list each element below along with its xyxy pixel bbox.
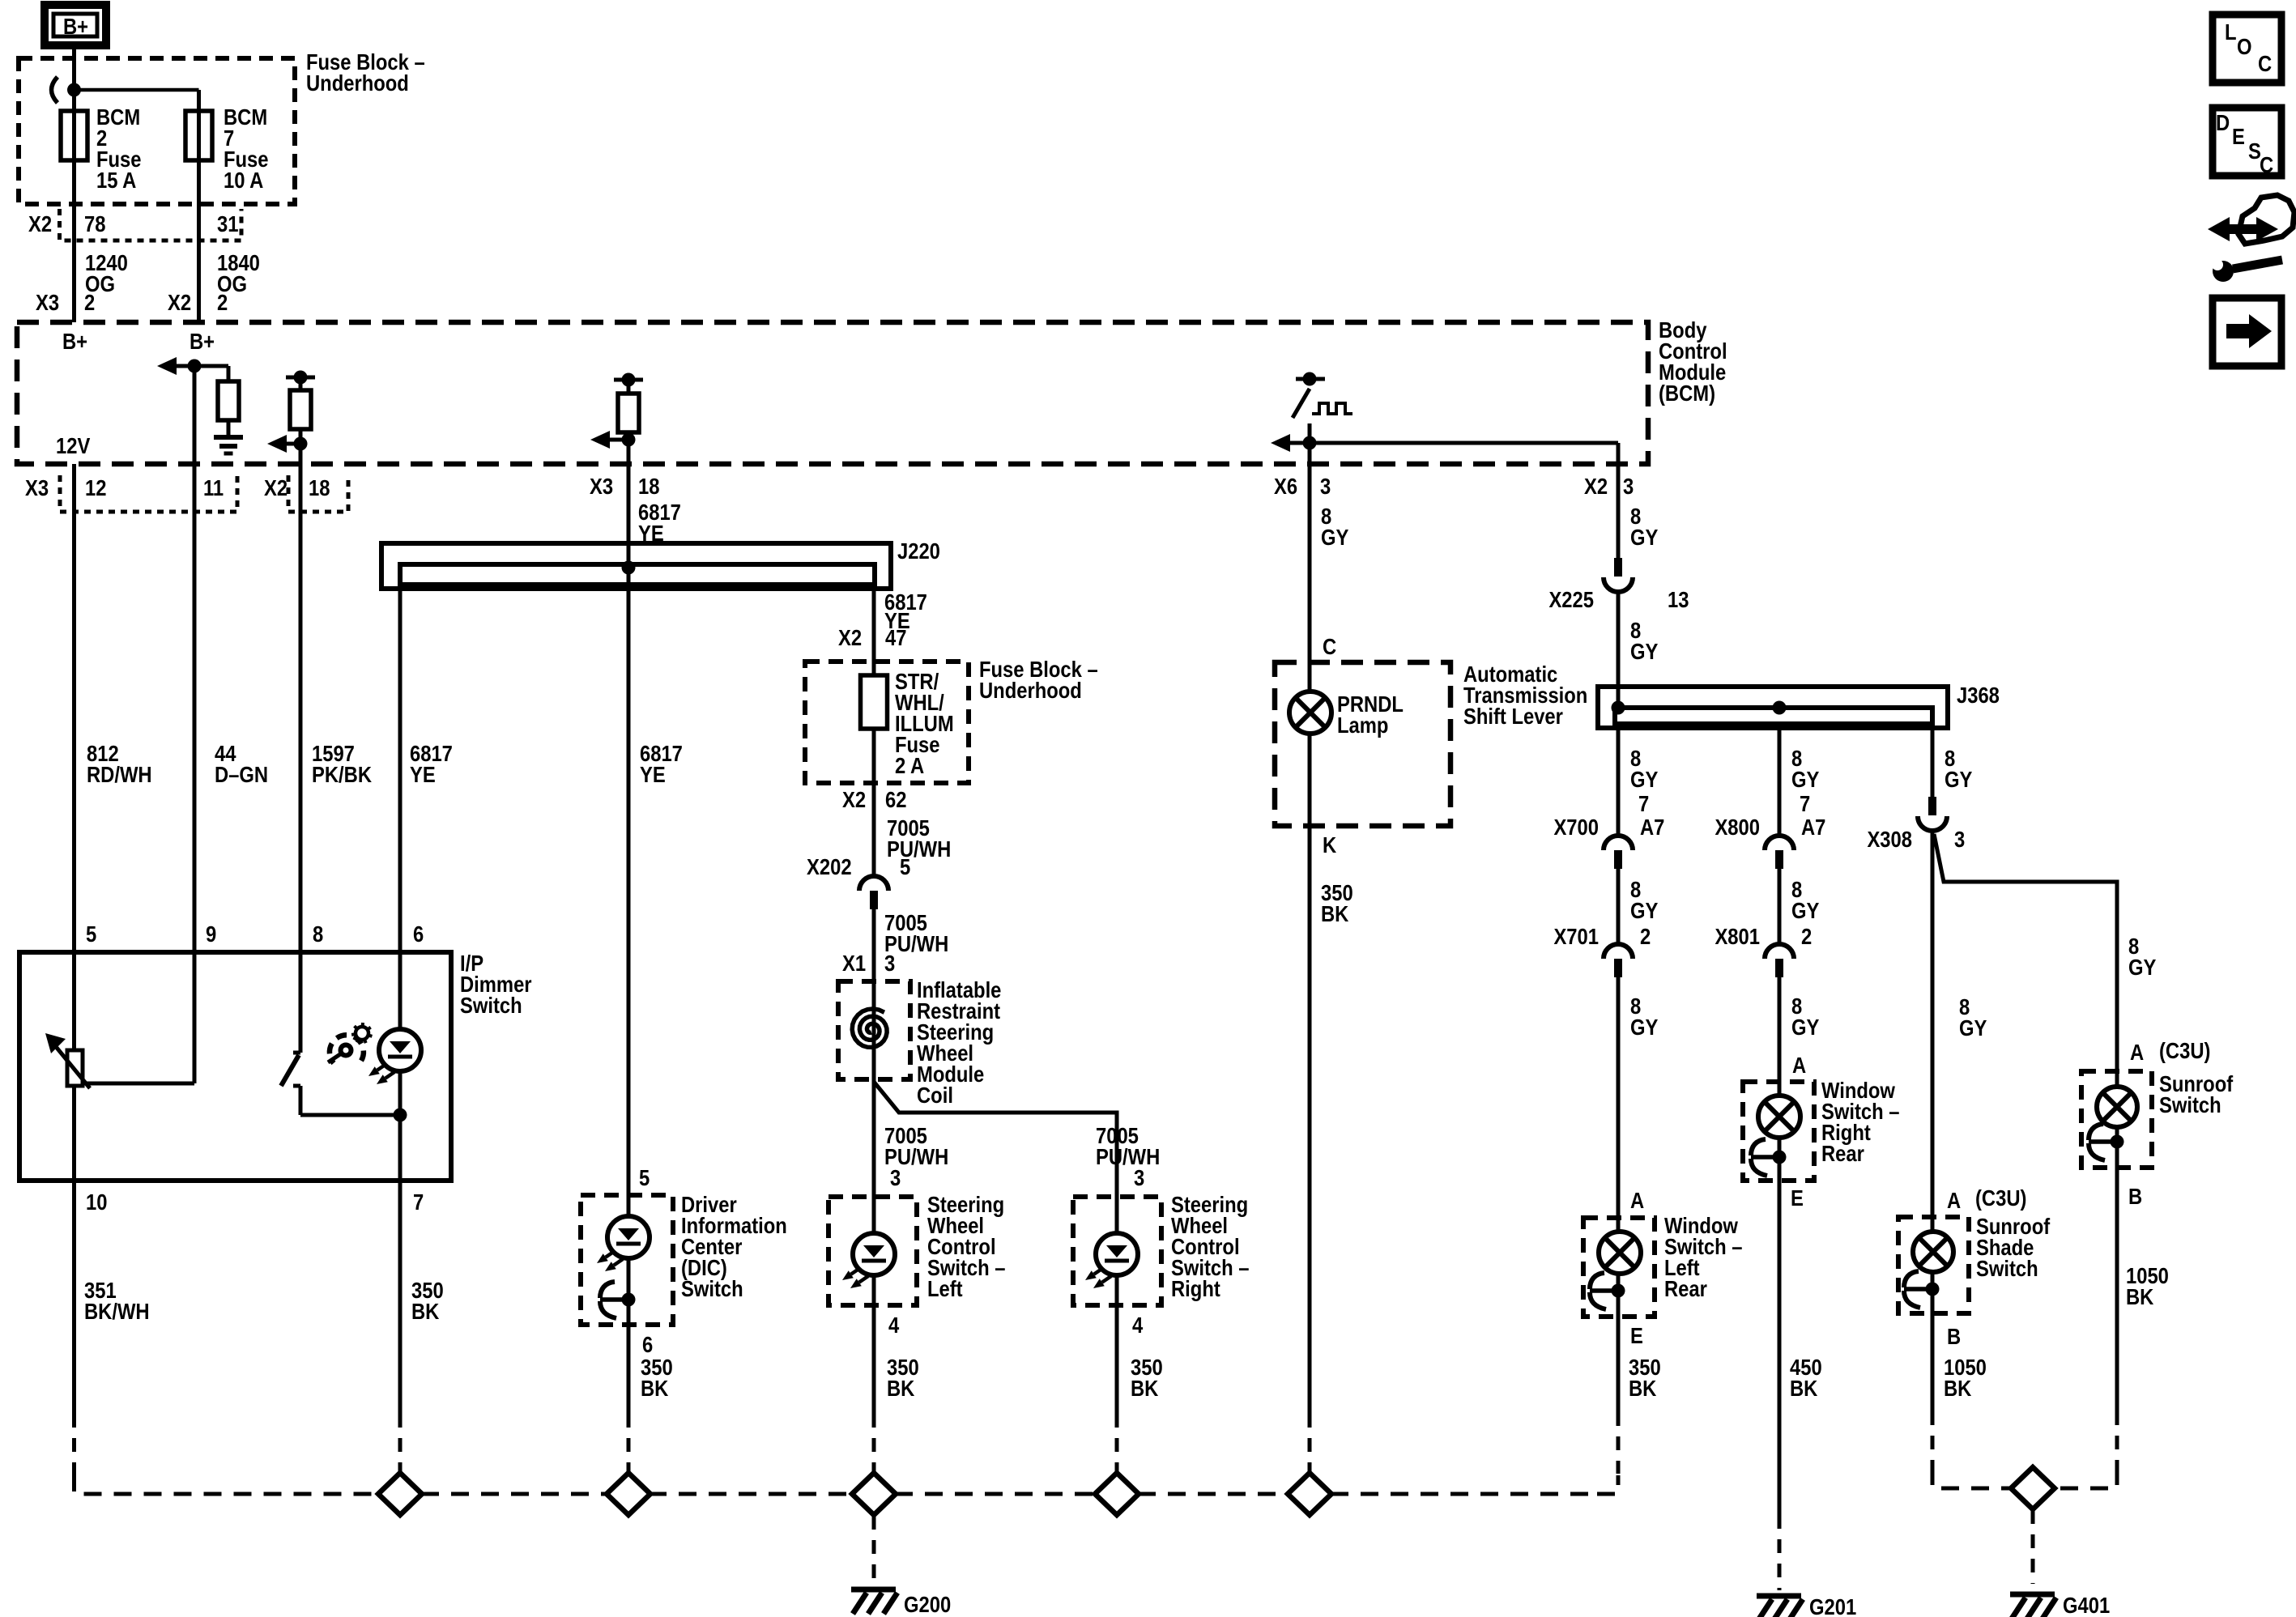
Automatic Transmission Shift Lever PRNDL lamp dashed box [1275,662,1450,826]
icon GO (arrow) box [2213,298,2281,366]
svg-text:BCM2Fuse15 A: BCM2Fuse15 A [96,104,142,193]
svg-text:2: 2 [84,289,95,315]
switch blade [281,1055,299,1086]
svg-text:BCM7Fuse10 A: BCM7Fuse10 A [224,104,269,193]
svg-text:4: 4 [888,1312,900,1338]
wire internal to pin X2-3 [1310,441,1618,445]
internal rail bar [614,378,643,382]
svg-text:B: B [2128,1183,2142,1209]
ground BCM internal [214,435,243,440]
lamp sunroof shade switch illumination [1913,1232,1953,1272]
wire 44 D-GN BCM X3-11 to dimmer pin 9 [193,512,197,1083]
wire 8 GY J368 to X700 [1617,728,1621,836]
junction BCM internal [188,360,202,373]
wire through DIC switch [627,1195,631,1325]
svg-text:X6: X6 [1274,473,1297,499]
svg-text:350BK: 350BK [887,1354,919,1401]
svg-text:62: 62 [885,786,906,812]
wire 350 BK PRNDL to ground bus [1308,826,1312,1414]
wire LED to pin 7 [398,1070,403,1181]
dimmer on/off switch blade [299,1040,303,1053]
svg-text:X2: X2 [842,786,866,812]
wire B+ feed down through BCM 2 fuse to BCM X3-2 [72,45,76,322]
svg-text:X202: X202 [807,853,852,879]
splice pack J220 [381,543,891,589]
junction feed split [67,83,81,97]
svg-text:X3: X3 [590,473,613,499]
svg-text:X308: X308 [1867,826,1912,852]
Window Switch - Left Rear dashed box [1583,1218,1655,1317]
switch blade [1293,389,1310,418]
svg-text:X800: X800 [1715,814,1760,840]
svg-text:78: 78 [84,211,105,236]
svg-text:9: 9 [206,921,216,947]
ground hook window switch right rear [1773,1151,1787,1164]
PWM square wave symbol [1312,403,1352,414]
junction [294,437,308,451]
svg-text:5: 5 [900,853,910,879]
ground hook sunroof switch [2111,1135,2124,1149]
Window Switch - Right Rear dashed box [1743,1082,1814,1181]
splice ground bus sunroof [2011,1467,2055,1509]
wire dashed 351 BK/WH to bus [72,1414,76,1474]
lamp window switch right rear illumination [1758,1096,1800,1138]
svg-text:2: 2 [1640,923,1651,949]
resistor BCM internal pull-down [218,381,239,420]
icon DESC box [2213,108,2281,176]
svg-text:18: 18 [638,473,659,499]
svg-text:G200: G200 [904,1591,951,1617]
svg-text:2: 2 [217,289,228,315]
svg-text:3: 3 [890,1164,901,1190]
ground hook sunroof shade switch [1926,1283,1940,1296]
connector pin box X3 12/11 [60,475,237,512]
wire branch 7005 PU/WH to SWC-right [874,1082,1117,1197]
resistor BCM internal (X2-18) [290,390,311,429]
svg-text:31: 31 [217,211,238,236]
splice ground bus [607,1473,650,1515]
splice ground bus [378,1473,422,1515]
wire dashed 1050 BK to bus [1931,1411,1935,1467]
svg-text:J368: J368 [1957,682,2000,708]
svg-text:A: A [1792,1052,1806,1078]
junction [1303,436,1317,450]
svg-text:350BK: 350BK [411,1277,444,1324]
wire 351 BK/WH dimmer pin 10 down [72,1181,76,1414]
ground hook window switch left rear [1612,1284,1625,1298]
lamp PRNDL [1289,691,1331,734]
svg-text:X3: X3 [25,474,49,500]
wire dashed 350 BK to bus [398,1414,403,1472]
svg-text:O: O [2237,33,2252,59]
lamp sunroof switch illumination [2097,1087,2137,1127]
connector X801 [1765,944,1794,959]
svg-text:K: K [1323,832,1336,857]
wire 350 BK window switch to bus [1617,1317,1621,1412]
ground G401 [2010,1592,2055,1598]
svg-text:350BK: 350BK [641,1354,673,1401]
LED dimmer illumination [379,1029,421,1071]
svg-text:D: D [2216,109,2230,135]
internal rail bar [286,376,315,380]
svg-text:B: B [1947,1323,1961,1349]
svg-text:5: 5 [639,1164,650,1190]
svg-text:8: 8 [313,921,323,947]
Driver Information Center (DIC) Switch dashed box [581,1195,673,1325]
lamp window switch left rear illumination [1599,1232,1641,1274]
svg-text:13: 13 [1668,586,1689,612]
Body Control Module (BCM) dashed box [17,322,1648,464]
junction J368 [1612,701,1625,715]
wire 8 GY BCM X2-3 to X225 [1617,464,1621,558]
wire through PRNDL lamp [1308,662,1312,826]
wire 350 BK SWC-left to ground bus [872,1305,876,1414]
svg-text:C: C [2258,50,2272,76]
fusible-link curl symbol [52,77,58,103]
wire to pin X6-3 [1308,423,1312,464]
svg-text:3: 3 [1954,826,1965,852]
svg-text:X1: X1 [842,950,866,976]
connector X308 pin 3 [1928,797,1936,815]
wire to pin X3-18 [627,432,631,464]
fuse block - underhood dashed box (STR/WHL/ILLUM) [805,662,969,783]
ground G200 [851,1587,896,1593]
svg-text:3: 3 [1134,1164,1144,1190]
wire dashed bus to G200 [872,1516,876,1584]
wire through window switch right rear [1778,1082,1782,1181]
wire dashed to G201 [1778,1515,1782,1590]
svg-text:X700: X700 [1553,814,1599,840]
wire dashed 1050 BK to bus [2115,1411,2119,1467]
svg-text:X225: X225 [1548,586,1594,612]
svg-text:A: A [2130,1039,2144,1065]
svg-text:18: 18 [309,474,330,500]
svg-text:7: 7 [1638,790,1649,816]
sense arrow [267,435,287,453]
switch lower contact [299,1086,303,1115]
splice ground bus [852,1473,896,1515]
svg-text:350BK: 350BK [1629,1354,1661,1401]
wire through SWC-left [872,1197,876,1305]
splice ground bus [1288,1473,1331,1515]
wire 6817 YE J220 to STR/WHL/ILLUM fuse X2-47 [872,585,876,675]
coil (clockspring) spiral symbol [852,1009,887,1048]
svg-text:E: E [2232,123,2245,149]
wire 1050 BK shade switch down [1931,1313,1935,1411]
fuse block - underhood dashed box [19,58,295,204]
svg-text:B+: B+ [190,328,215,354]
ground bus [421,1492,608,1496]
connector X202 pin 5 [859,876,888,891]
wire to pull-down resistor [227,366,231,381]
svg-text:3: 3 [884,950,895,976]
LED SWC-right illumination [1096,1233,1138,1275]
wire dashed 350 BK to bus [627,1414,631,1472]
wire dashed 350 BK to bus [1308,1414,1312,1472]
ground hook DIC switch [622,1293,636,1307]
svg-text:G201: G201 [1809,1594,1856,1617]
junction [622,433,636,447]
svg-text:E: E [1630,1322,1643,1348]
svg-text:7: 7 [413,1189,424,1215]
wire through sunroof switch [2115,1071,2119,1168]
wire 8 GY X800 to X801 [1778,869,1782,944]
svg-text:X2: X2 [1584,473,1608,499]
svg-text:B+: B+ [63,13,88,39]
fuse BCM 2 15A [61,111,87,160]
junction [394,1108,407,1122]
svg-text:C: C [1323,633,1336,659]
svg-text:J220: J220 [897,538,940,564]
wire resistor to pin X2-18 [299,429,303,512]
wire 8 GY J368 to X800 [1778,724,1782,836]
wire 8 GY X801 to window switch right rear [1778,977,1782,1082]
Sunroof Shade Switch dashed box [1898,1217,1969,1313]
wire 8 GY X701 to window switch left rear [1617,977,1621,1218]
svg-text:B+: B+ [62,328,87,354]
ground bus [649,1492,853,1496]
connector pin box X2 78/31 [60,209,242,240]
ground bus [1331,1492,1597,1496]
svg-text:Fuse Block –Underhood: Fuse Block –Underhood [306,49,425,96]
junction J368 [1773,701,1787,715]
svg-text:A: A [1630,1187,1644,1213]
battery feed B+ box [45,5,106,45]
ground G201 [1757,1594,1801,1599]
wire 7005 PU/WH fuse to X202 [872,729,876,876]
wire switch to LED rail [300,1113,400,1117]
svg-text:L: L [2225,19,2237,45]
svg-text:(C3U): (C3U) [2159,1037,2210,1063]
svg-text:10: 10 [86,1189,107,1215]
wire dashed bus to G401 [2031,1510,2035,1584]
wire through coil down to SWC-left pin 3 [872,981,876,1197]
splice ground bus [1095,1473,1139,1515]
svg-text:350BK: 350BK [1321,879,1353,926]
svg-text:47: 47 [885,624,906,650]
svg-text:12: 12 [85,474,106,500]
wire 1050 BK sunroof switch down [2115,1168,2119,1411]
connector X700 [1604,836,1633,850]
wire through window switch left rear [1617,1218,1621,1317]
svg-text:C: C [2260,151,2273,177]
svg-text:11: 11 [203,474,224,500]
Sunroof Switch dashed box [2081,1071,2152,1168]
svg-text:3: 3 [1320,473,1331,499]
resistor BCM internal (X3-18) [618,394,639,432]
wire pot to pin 10 [72,1086,76,1181]
gauge cluster icon [330,1035,364,1063]
wire 350 BK DIC to ground bus [627,1325,631,1414]
wire dashed 350 BK to bus [1617,1412,1621,1474]
wire 7005 PU/WH X202 to coil X1-3 [872,909,876,981]
LED DIC switch illumination [607,1216,650,1258]
wire 8 GY BCM X6-3 to PRNDL lamp [1308,464,1312,662]
I/P Dimmer Switch box [19,952,451,1181]
sense arrow [1271,434,1290,452]
connector X225 pin 13 [1614,558,1622,577]
wire 350 BK dimmer pin 7 down [398,1181,403,1414]
svg-text:5: 5 [86,921,96,947]
svg-text:7: 7 [1800,790,1810,816]
ground bus [1138,1492,1289,1496]
svg-text:A: A [1947,1187,1961,1213]
wire 6817 YE J220 to dimmer pin 6 [398,585,403,952]
icon arrow+wrench (diagnostics) [2208,217,2278,241]
connector pin box X2 18 [288,475,348,512]
svg-text:G401: G401 [2063,1592,2110,1617]
svg-text:X2: X2 [168,289,191,315]
fuse BCM 7 10A [185,111,212,160]
Steering Wheel Control Switch - Right dashed box [1073,1197,1161,1305]
LED SWC-left illumination [853,1233,895,1275]
wire dashed 350 BK to bus [1115,1414,1119,1472]
Steering Wheel Control Switch - Left dashed box [829,1197,917,1305]
wire through SWC-right [1115,1197,1119,1305]
wire through BCM 7 fuse to BCM X2-2 [197,90,201,322]
wire 1597 PK/BK BCM X2-18 to dimmer pin 8 [299,512,303,1040]
svg-text:A7: A7 [1801,814,1825,840]
BCM internal B+ rail with sense arrow [157,357,177,375]
svg-text:3: 3 [1623,473,1634,499]
svg-text:X2: X2 [28,211,52,236]
wire 8 GY J368 to X308 [1931,724,1935,797]
connector X800 [1765,836,1794,850]
wire branch 8 GY to sunroof switch [1934,834,2117,1071]
wire BCM internal to pin X3-11 [193,366,197,512]
svg-text:Fuse Block –Underhood: Fuse Block –Underhood [979,656,1098,703]
svg-text:X2: X2 [838,624,862,650]
svg-text:(C3U): (C3U) [1975,1185,2026,1211]
wire 8 GY X225 to J368 [1617,593,1621,708]
wire wiper to pin 9 [81,1082,194,1086]
splice pack J368 (in shift lever) [1598,687,1948,728]
connector X701 [1604,944,1633,959]
svg-text:350BK: 350BK [1131,1354,1163,1401]
svg-text:4: 4 [1132,1312,1144,1338]
fuse STR/WHL/ILLUM 2A [861,675,888,729]
svg-text:A7: A7 [1640,814,1664,840]
icon LOC box [2213,15,2281,83]
svg-text:X2: X2 [264,474,288,500]
wire 8 GY X700 to X701 [1617,869,1621,944]
svg-text:X701: X701 [1553,923,1599,949]
potentiometer I/P dimmer [67,1050,83,1086]
potentiometer wiper arrow shaft [53,1044,90,1088]
wire 450 BK window switch right rear to G201 [1778,1181,1782,1515]
wire to BCM 7 fuse [75,88,199,92]
internal rail bar [1296,377,1325,381]
wire 350 BK SWC-right to ground bus [1115,1305,1119,1414]
wire dashed 350 BK to bus [872,1414,876,1472]
wire through sunroof shade switch [1931,1217,1935,1313]
junction J220 [622,561,636,575]
Inflatable Restraint Steering Wheel Module Coil dashed box [838,981,910,1079]
svg-text:X801: X801 [1715,923,1760,949]
svg-text:X3: X3 [36,289,59,315]
svg-text:6: 6 [413,921,424,947]
svg-text:E: E [1791,1185,1804,1211]
wire pin 6 to LED [398,952,403,1031]
svg-text:12V: 12V [56,432,91,458]
svg-text:450BK: 450BK [1790,1354,1822,1401]
sense arrow [590,431,610,449]
wire 812 RD/WH BCM X3-12 to dimmer pin 5 [72,464,76,1050]
wire 6817 YE BCM X3-18 through J220 to DIC switch [627,464,631,1195]
svg-text:2: 2 [1801,923,1812,949]
wire 8 GY X308 to sunroof shade switch [1931,832,1935,1217]
ground bus [895,1492,1096,1496]
